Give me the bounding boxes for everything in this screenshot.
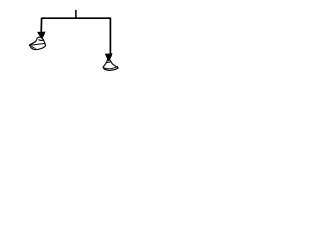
node B: right doodle shape xyxy=(103,59,118,71)
wire: right vertical drop xyxy=(109,18,111,55)
wire: left vertical drop xyxy=(40,18,42,33)
node A: left doodle shape xyxy=(29,37,45,49)
arrowhead left xyxy=(37,32,46,40)
wire: parent stub tick at top center xyxy=(75,10,77,18)
arrowhead right xyxy=(105,53,113,61)
wire: horizontal bus line xyxy=(42,17,111,19)
